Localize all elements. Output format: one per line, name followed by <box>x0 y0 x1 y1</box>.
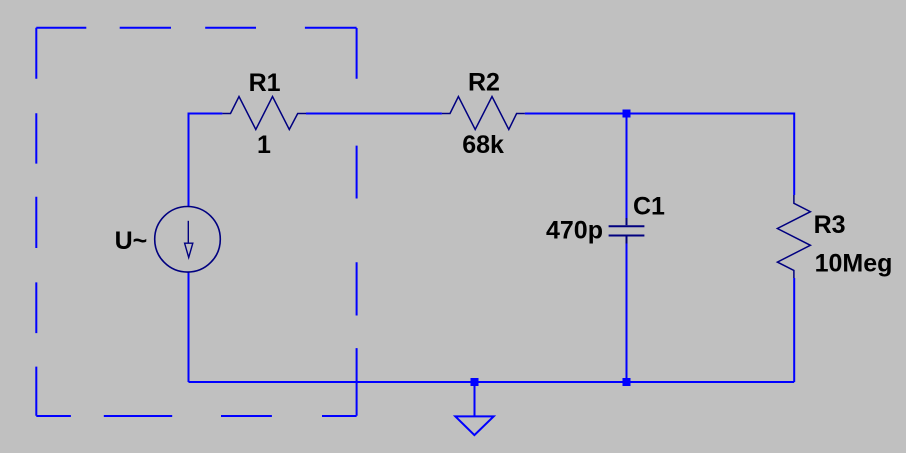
svg-text:R2: R2 <box>468 69 500 97</box>
svg-text:10Meg: 10Meg <box>815 249 893 277</box>
node A (R2/C1 junction) <box>623 110 631 118</box>
wire R2 to top-right corner and down to R3 <box>525 114 794 196</box>
voltage source U1 circle <box>155 207 221 273</box>
svg-text:U~: U~ <box>115 227 148 255</box>
bottom wire <box>189 381 795 383</box>
svg-text:R3: R3 <box>814 211 846 239</box>
wire R1 to R2 <box>306 113 442 115</box>
node B (ground junction) <box>471 378 479 386</box>
resistor R1 <box>222 97 306 130</box>
voltage source arrow <box>185 221 193 258</box>
wire C1 bottom down <box>626 244 628 383</box>
wire from source top to R1 <box>189 114 223 207</box>
svg-text:R1: R1 <box>249 69 281 97</box>
node C (C1 bottom junction) <box>623 378 631 386</box>
ground <box>455 382 493 435</box>
wire source bottom down <box>188 272 190 382</box>
resistor R2 <box>442 97 525 130</box>
resistor R3 <box>777 195 810 278</box>
svg-text:C1: C1 <box>633 192 665 220</box>
capacitor C1 <box>609 218 645 244</box>
svg-text:1: 1 <box>257 131 271 159</box>
wire node to C1 top <box>626 114 628 219</box>
wire R3 bottom down <box>793 278 795 382</box>
svg-text:470p: 470p <box>546 216 603 244</box>
dashed subcircuit box <box>36 28 356 416</box>
svg-text:68k: 68k <box>462 131 504 159</box>
